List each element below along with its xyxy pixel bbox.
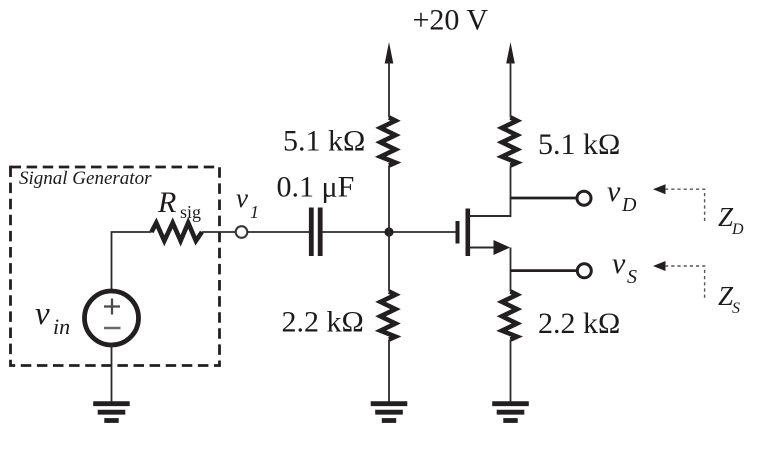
node v1 terminal: [236, 226, 248, 238]
svg-text:v: v: [35, 296, 50, 332]
voltage source vin: [85, 291, 139, 345]
svg-text:0.1 μF: 0.1 μF: [277, 171, 355, 204]
svg-text:5.1 kΩ: 5.1 kΩ: [538, 128, 620, 161]
svg-text:1: 1: [250, 202, 259, 222]
capacitor C1 0.1 uF plate right: [318, 208, 323, 257]
svg-text:2.2 kΩ: 2.2 kΩ: [282, 306, 364, 339]
junction node dot: [384, 227, 393, 236]
svg-text:v: v: [607, 175, 621, 208]
resistor R2 2.2k bias lower: [381, 292, 396, 340]
wire RS to ground: [510, 340, 512, 403]
wire source top to Rsig: [112, 232, 152, 292]
transistor Q1 drain lead: [470, 215, 511, 217]
ground right: [492, 404, 529, 421]
wire vD tap: [511, 197, 577, 200]
svg-text:R: R: [157, 186, 176, 219]
transistor Q1 gate bar: [456, 221, 460, 244]
wire RD to drain node: [510, 166, 512, 218]
terminal vD: [577, 191, 591, 205]
svg-text:sig: sig: [180, 202, 201, 222]
wire source to ground: [111, 345, 113, 402]
svg-text:v: v: [236, 183, 248, 213]
wire supply to RD: [510, 62, 512, 118]
ground middle: [371, 404, 408, 421]
svg-text:5.1 kΩ: 5.1 kΩ: [283, 125, 365, 158]
wire source node down: [510, 248, 512, 292]
svg-text:2.2 kΩ: 2.2 kΩ: [538, 307, 620, 340]
svg-text:D: D: [731, 221, 744, 238]
ZD pointer arrow: [653, 184, 666, 194]
ground left: [93, 404, 130, 421]
wire capacitor to gate: [323, 231, 456, 233]
svg-text:in: in: [53, 314, 70, 339]
svg-text:S: S: [627, 266, 637, 288]
svg-text:Signal Generator: Signal Generator: [19, 168, 152, 189]
resistor RD 5.1k drain: [502, 118, 517, 166]
wire supply to R1: [388, 62, 390, 118]
transistor Q1 channel bar: [465, 209, 470, 257]
resistor Rsig: [152, 223, 202, 241]
wire R2 to ground: [388, 340, 390, 403]
capacitor C1 0.1 uF plate left: [309, 208, 314, 257]
supply arrow right: [506, 42, 515, 64]
transistor Q1 source lead with arrow: [470, 247, 496, 249]
wire R1 to node and to R2: [388, 166, 390, 292]
wire v1 to capacitor: [247, 231, 309, 233]
resistor R1 5.1k bias upper: [381, 118, 396, 166]
svg-text:D: D: [621, 194, 637, 216]
wire Rsig to node v1: [202, 231, 236, 233]
svg-text:+20 V: +20 V: [413, 4, 489, 37]
source minus sign: [104, 327, 121, 330]
source plus sign: [104, 299, 120, 315]
svg-text:v: v: [612, 247, 626, 280]
resistor RS 2.2k source: [502, 292, 517, 340]
svg-text:S: S: [732, 300, 740, 317]
wire vS tap: [511, 269, 578, 272]
terminal vS: [577, 264, 591, 278]
signal generator dashed box: [11, 167, 220, 366]
ZS pointer arrow: [653, 261, 666, 271]
supply arrow left: [385, 42, 394, 64]
